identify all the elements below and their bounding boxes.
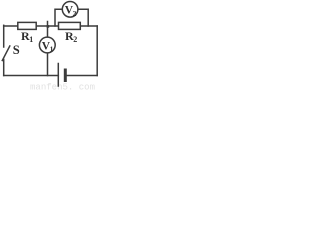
wire node A down to voltmeter V1 [47,26,49,37]
voltmeter V1 body [39,37,55,53]
wire V2 branch right return [78,9,88,26]
svg-text:2: 2 [73,9,77,18]
battery short plate (-) [64,70,67,81]
voltmeter V2 body [62,2,78,18]
svg-text:S: S [13,43,20,57]
wire top (R1 to node A) [36,25,59,27]
wire left edge upper (corner to switch) [3,25,5,47]
resistor R1 [18,22,36,29]
node A junction tick [47,22,49,27]
wire V1 down to bottom wire [47,53,49,76]
node A junction dot [47,25,50,28]
switch S blade [2,46,10,61]
svg-text:1: 1 [50,45,54,54]
wire right edge [96,26,98,76]
svg-text:manfen5. com: manfen5. com [30,83,95,93]
svg-text:2: 2 [73,35,77,44]
wire bottom (battery to right corner) [65,75,97,77]
resistor R2 [59,22,81,29]
svg-text:1: 1 [29,35,33,44]
wire bottom (left corner to battery) [4,75,59,77]
wire top (R2 to top-right corner) [80,25,97,27]
battery long plate (+) [57,64,59,87]
wire top (left segment to R1) [4,25,18,27]
wire left edge lower (switch to bottom corner) [3,60,5,76]
wire V2 branch riser left [55,9,62,26]
